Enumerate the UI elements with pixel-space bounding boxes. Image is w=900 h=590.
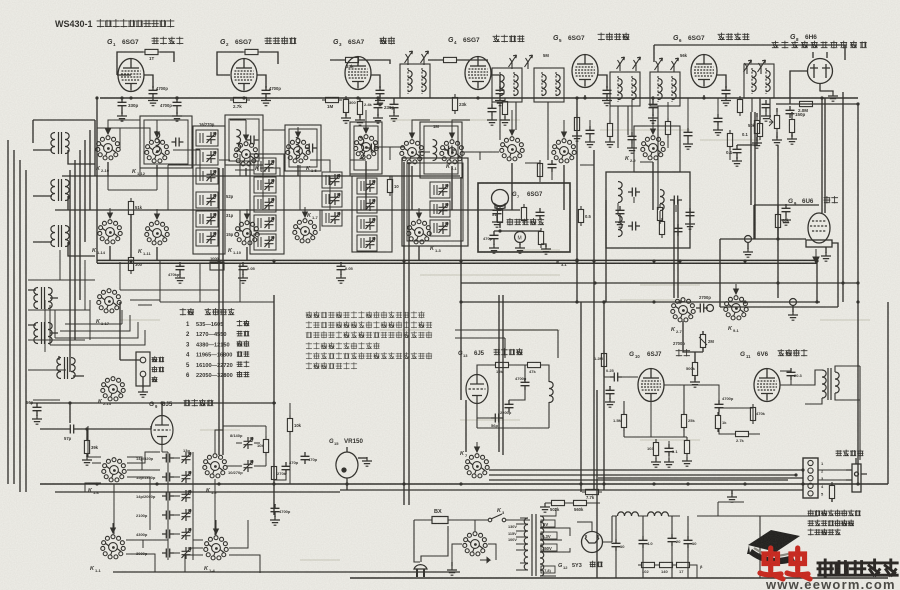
wire vpair b (222, 168, 224, 455)
variable capacitor in coil column A (207, 170, 217, 182)
switch socket K1-9 (400, 140, 424, 164)
junction osc (68, 401, 71, 404)
lbl 校频振荡 (494, 349, 522, 355)
resistor 2.0M (796, 101, 816, 106)
wire (729, 130, 731, 160)
wire (289, 403, 291, 484)
ground (713, 126, 723, 135)
coil column D (357, 178, 377, 251)
wire (609, 100, 611, 139)
junction (175, 96, 178, 99)
wire coil-ish (325, 194, 327, 204)
resistor 502k (548, 500, 568, 505)
ground under cap (761, 112, 771, 121)
capacitor padder 15p/1350p (162, 473, 174, 482)
variable capacitor in coil column D (366, 237, 376, 249)
trimmer pair G4 in b (525, 55, 533, 69)
junction (120, 96, 123, 99)
resistor 300 g3 (343, 96, 348, 116)
wire 6u6 loop right (837, 247, 839, 307)
wire g10 r (624, 385, 684, 437)
wire g7 row (494, 230, 541, 232)
variable capacitor trim 4 (182, 509, 192, 521)
junction bus261 (459, 259, 462, 262)
wire v503 (502, 295, 504, 455)
note line3 6分集收讯 (808, 529, 840, 535)
arrow K1-9 (410, 128, 415, 138)
wire (832, 243, 838, 247)
wire coil-ish (257, 199, 259, 209)
capacitor g5 (586, 126, 595, 138)
wire v461 (460, 177, 462, 400)
tube G5 6SG7 (572, 55, 598, 88)
variable capacitor in coil column B (265, 236, 275, 248)
wire nest osc a (50, 315, 145, 345)
wire (493, 243, 495, 245)
wire v577 full (576, 98, 578, 302)
resistor g6b (727, 130, 732, 150)
wire osc top stub (161, 403, 163, 415)
capacitor 4700p b (521, 378, 530, 390)
ground term (743, 248, 753, 257)
variable capacitor in coil column B (265, 160, 275, 172)
wire (791, 132, 793, 137)
wire v409 (408, 162, 410, 505)
wire g11 cap (780, 368, 791, 385)
wire coil-ish2 (202, 233, 204, 243)
switch socket K9-1 (724, 296, 748, 320)
junction bus98 (95, 96, 98, 99)
wire bottom rail (350, 577, 888, 579)
variable capacitor trim 6 (182, 547, 192, 559)
capacitor in IF can T5 (444, 146, 456, 155)
tube G1 6SG7 (118, 59, 144, 92)
wire ladder link (174, 552, 180, 554)
wire (33, 120, 95, 143)
meter M (515, 232, 526, 243)
resistor 10k osc2 (492, 362, 512, 367)
wire ladder link (174, 457, 180, 459)
resistor 0.5 (578, 206, 583, 226)
wire (519, 242, 521, 245)
junction bus261 (678, 259, 681, 262)
wire mesh 6 (108, 120, 246, 140)
junction bus484 (272, 482, 275, 485)
wire coil-ish2 (363, 238, 365, 248)
junction (575, 258, 578, 261)
resistor 1.2M (601, 350, 606, 370)
tube G9 6U6 (806, 213, 832, 247)
box 1000p (210, 262, 224, 270)
junction bus261 (129, 259, 132, 262)
wire plate link (371, 75, 380, 86)
wire (539, 160, 541, 182)
wire v888 (887, 302, 889, 484)
variable capacitor in coil column D (366, 199, 376, 211)
resistor 2.7k b (732, 431, 752, 436)
wire (589, 120, 591, 139)
wire long left (55, 491, 340, 493)
variable capacitor trim 1 (182, 452, 192, 464)
transformer output (822, 368, 839, 400)
box K2-2 (634, 126, 680, 172)
wire (717, 98, 719, 127)
ground g7c (541, 245, 551, 254)
wire (59, 356, 84, 376)
coil s IF transformer T5b (422, 71, 426, 92)
wire (541, 231, 546, 247)
paragraph line 4 (306, 343, 379, 349)
capacitor g7 (490, 231, 499, 243)
wire coil-ish (257, 180, 259, 190)
wire (86, 454, 88, 457)
junction bus484 (95, 482, 98, 485)
resistor 560k (570, 500, 590, 505)
wire coil-ish (433, 204, 435, 214)
wire g10-g11 link (664, 385, 760, 434)
coil box T3 inner (289, 129, 317, 167)
capacitor 470p b (301, 452, 310, 464)
junction (776, 237, 779, 240)
paragraph line 6 (306, 363, 357, 369)
junction bus484 (801, 482, 804, 485)
wire mesh 4 (300, 165, 330, 231)
wire coil-ish (199, 133, 201, 143)
junction bus261 (652, 259, 655, 262)
junction bus98 (476, 96, 479, 99)
wire k7 b (489, 474, 600, 476)
terminal circle 3 (707, 305, 714, 312)
wire spk a (598, 477, 803, 479)
resistor g7 (497, 206, 502, 226)
IF transformer T6 (492, 68, 522, 102)
arrow cathode 6U6 (813, 249, 819, 263)
resistor 39k (84, 437, 89, 457)
decorative (120, 120, 870, 560)
wire tube stub (243, 98, 245, 99)
switch socket K2-10 (96, 136, 120, 160)
wire ladder link (174, 476, 180, 478)
wire ant in (120, 302, 140, 360)
arrow K1-10 (245, 209, 250, 219)
wire coil-ish2 (260, 161, 262, 171)
arrow K9-1 (734, 284, 739, 294)
wire nest osc b (45, 300, 55, 352)
wire vleft4 (25, 170, 27, 492)
wire long mid (340, 489, 803, 491)
switch socket K2-2 (552, 139, 576, 163)
wire coil-ish2 (363, 219, 365, 229)
coil box T2 inner (229, 119, 259, 161)
variable capacitor 10/270p (244, 460, 254, 472)
arrow K1-1 (111, 523, 116, 533)
capacitor 56p (33, 403, 42, 415)
arrow pwr (480, 558, 490, 563)
capacitor if6 (684, 128, 693, 140)
resistor 10k b (287, 415, 292, 435)
junction bus261 (272, 259, 275, 262)
junction bus98 (356, 96, 359, 99)
coil column C (322, 172, 342, 226)
tube G6 6SG7 (691, 55, 717, 88)
wire v404 (403, 162, 405, 505)
paragraph line 2 (306, 322, 432, 328)
variable capacitor in coil column B (265, 179, 275, 191)
wire coil-ish (433, 185, 435, 195)
wire coil-ish2 (260, 180, 262, 190)
wire coil-ish (360, 200, 362, 210)
wire (667, 102, 669, 148)
wire coil-ish (199, 233, 201, 243)
wire (699, 337, 707, 345)
lbl 第二中放 (598, 33, 629, 40)
resistor 140 (656, 562, 676, 567)
coil box T2 (225, 115, 263, 165)
wire (652, 98, 654, 116)
ground screen (602, 97, 612, 106)
trimmer pair G5 b (633, 57, 641, 71)
arrow K1-3 (417, 208, 422, 218)
capacitor screen stage (603, 86, 612, 98)
wire coil-ish (360, 181, 362, 191)
wire bottom right (697, 516, 818, 578)
resistor 100k (757, 120, 762, 140)
lbl 调幅 (824, 197, 838, 204)
capacitor 0.05 (239, 262, 248, 274)
arrow K3-1 (510, 125, 515, 135)
wire (777, 205, 779, 239)
wire coil-ish2 (260, 218, 262, 228)
junction (776, 281, 779, 284)
tube G13 6J5 (466, 375, 488, 404)
junction (602, 300, 605, 303)
resistor g5 screen (574, 114, 579, 134)
ground (389, 112, 399, 121)
wire osc top (30, 402, 276, 404)
capacitor in IF can T4 (367, 144, 379, 153)
ground (615, 218, 625, 227)
capacitor 4700p (173, 98, 182, 110)
variable capacitor in coil column D (366, 180, 376, 192)
coil osc2 (549, 382, 553, 403)
wire (346, 486, 348, 490)
ground (238, 274, 248, 283)
wire vpair a (218, 168, 220, 455)
capacitor g6 (714, 114, 723, 126)
wire coil-ish2 (363, 200, 365, 210)
wire mesh verts (70, 120, 95, 372)
junction osc3 (272, 401, 275, 404)
switch socket K1-4 (204, 536, 228, 560)
wire (451, 562, 453, 566)
ground (492, 218, 502, 227)
wire coil-ish (325, 175, 327, 185)
wire coil-ish (325, 213, 327, 223)
ground 330p (117, 112, 127, 121)
wire (223, 426, 266, 440)
lbl 第一中放 (493, 35, 524, 42)
tbl 千周 (237, 352, 249, 357)
junction bus302 (459, 300, 462, 303)
wire (606, 86, 608, 98)
coil box T3 (285, 125, 321, 171)
arrow K2-2 (651, 124, 656, 134)
wire ant links (33, 150, 95, 256)
junction (794, 473, 797, 476)
capacitor 0.25M in (610, 373, 622, 382)
ground g7a (489, 244, 499, 253)
lbl 低放 (676, 350, 690, 357)
ground (664, 458, 674, 467)
lbl 输出监听 (836, 450, 863, 456)
wire plate link (144, 75, 153, 86)
ground 56p (32, 415, 42, 424)
IF can T5 inner (424, 126, 458, 174)
wire (725, 86, 727, 98)
coil s IF transformer T6 (514, 75, 518, 96)
junction (801, 468, 804, 471)
capacitor 4700p g10 (715, 400, 724, 412)
wire avc line (776, 103, 858, 105)
wire coil-ish2 (328, 194, 330, 204)
junction bus484 (856, 482, 859, 485)
wire coil-ish2 (202, 195, 204, 205)
wire osc mesh3 (85, 426, 260, 573)
ground 230p (373, 114, 383, 123)
wire coil-ish (199, 171, 201, 181)
capacitor filter 2 (639, 536, 648, 548)
ground (683, 140, 693, 149)
wire (274, 504, 276, 517)
inductor choke 2 (648, 512, 669, 516)
wire coil-ish2 (436, 223, 438, 233)
arrow K1-8 (244, 130, 249, 140)
lbl 天2 (152, 367, 164, 373)
coil p IF transformer T8 (658, 79, 662, 100)
coil p IF transformer T9 (752, 71, 756, 92)
capacitor 330p (118, 98, 127, 110)
lbl 地 (152, 377, 157, 382)
wire (499, 210, 501, 228)
trimmer pair G5c (655, 58, 663, 72)
junction bus302 (602, 300, 605, 303)
wire (176, 98, 178, 114)
resistor 33k above G3 (342, 57, 362, 62)
resistor between sockets (537, 160, 542, 180)
ground (627, 144, 637, 153)
capacitor (762, 100, 771, 112)
wire v594 (593, 150, 595, 490)
junction bus98 (583, 96, 586, 99)
wire g10 cath (624, 400, 687, 458)
ground (487, 116, 497, 125)
junction bus484 (217, 482, 220, 485)
junction 858-302 (856, 300, 859, 303)
arrow K1-7 (303, 207, 308, 217)
resistor g7b (538, 228, 543, 248)
wire v606 (605, 200, 607, 302)
arrow K1-12 (155, 127, 160, 137)
capacitor (337, 262, 346, 274)
wire osc mesh (126, 452, 242, 572)
wire AVC bus rf (62, 175, 460, 177)
wire (265, 86, 267, 98)
terminal box 天线 (136, 352, 150, 386)
ground 500k (690, 378, 700, 387)
capacitor between sockets (548, 160, 557, 172)
box G7 level meter (478, 183, 570, 252)
capacitor 0.1 g4 (488, 104, 497, 116)
wire (653, 45, 655, 62)
ground (341, 114, 351, 123)
ground (172, 112, 182, 121)
switch socket K1-7 (293, 219, 317, 243)
resistor 75k (789, 116, 794, 136)
coil in coil box T1 (156, 132, 160, 153)
wire main bus upper (97, 259, 817, 261)
transformer antenna coil (51, 179, 69, 201)
ground (772, 136, 782, 145)
junction bus261 (815, 259, 818, 262)
resistor 1k g4 (502, 98, 507, 118)
trimmer mix b (421, 51, 429, 65)
ground 6u6 (821, 252, 831, 261)
wire filter drops (616, 516, 688, 578)
trimmer pair G6b (758, 60, 766, 74)
switch socket K7 (465, 454, 489, 478)
wire coil-ish (433, 223, 435, 233)
wire choke link (612, 516, 680, 542)
ground (336, 274, 346, 283)
wire (379, 86, 381, 98)
tube G4 6SG7 (465, 57, 491, 90)
coil in IF can T4 (360, 138, 364, 159)
resistor 500k (692, 359, 697, 379)
transformer antenna coil 3 (57, 357, 75, 379)
wire osc grid (40, 426, 151, 429)
wire coil-ish (360, 238, 362, 248)
ground term2 (788, 311, 798, 320)
junction bus261 (592, 259, 595, 262)
junction (498, 229, 501, 232)
wire g10 in (604, 366, 638, 377)
coil s IF transformer T7 (632, 79, 636, 100)
tube G7 balloon (492, 190, 509, 209)
ground screen (375, 97, 385, 106)
wire (825, 247, 827, 253)
potentiometer 2M (700, 331, 705, 351)
transformer antenna coil (51, 132, 69, 154)
wire osc mesh4 (215, 430, 223, 535)
wire ladder link (174, 514, 180, 516)
wire (759, 98, 761, 120)
trimmer pair G5d (671, 58, 679, 72)
wire rf mesh b (310, 147, 390, 176)
variable capacitor in coil column A2 (207, 232, 217, 244)
resistor 23k (452, 94, 457, 114)
ground (651, 458, 661, 467)
ground (175, 274, 185, 283)
wire (737, 137, 757, 145)
arrow K2-10 (106, 124, 111, 134)
coil p IF transformer T7 (618, 79, 622, 100)
wire plate link (598, 75, 607, 86)
variable capacitor in coil column E (439, 222, 449, 234)
wire ladder link (174, 495, 180, 497)
box col A (193, 126, 225, 254)
ground ant (138, 388, 148, 397)
resistor 10k (263, 436, 268, 456)
